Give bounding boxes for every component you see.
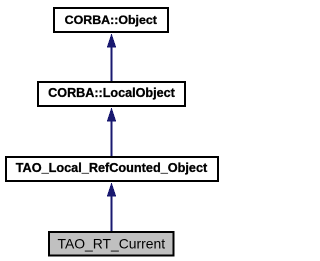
svg-text:CORBA::LocalObject: CORBA::LocalObject xyxy=(48,86,175,100)
svg-text:TAO_RT_Current: TAO_RT_Current xyxy=(58,235,166,251)
node box TAO_RT_Current (current class, grey) xyxy=(49,232,174,256)
node box TAO_Local_RefCounted_Object xyxy=(6,157,218,181)
svg-text:CORBA::Object: CORBA::Object xyxy=(65,13,157,27)
node box CORBA::LocalObject xyxy=(38,82,185,106)
inheritance arrow TAO_RT_Current to TAO_Local_RefCounted_Object xyxy=(107,182,116,231)
node box CORBA::Object xyxy=(54,8,168,32)
svg-text:TAO_Local_RefCounted_Object: TAO_Local_RefCounted_Object xyxy=(16,161,208,175)
inheritance arrow TAO_Local_RefCounted_Object to CORBA::LocalObject xyxy=(107,107,116,156)
inheritance arrow CORBA::LocalObject to CORBA::Object xyxy=(107,33,116,81)
